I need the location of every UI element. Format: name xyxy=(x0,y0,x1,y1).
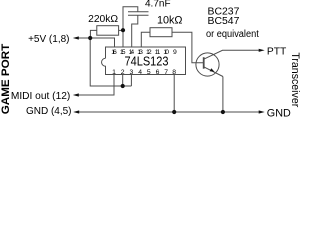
svg-text:10kΩ: 10kΩ xyxy=(157,15,182,27)
svg-text:1: 1 xyxy=(112,69,116,76)
svg-text:GND: GND xyxy=(267,108,291,118)
svg-text:220kΩ: 220kΩ xyxy=(88,14,118,25)
svg-text:5: 5 xyxy=(147,69,151,76)
svg-text:MIDI out (12): MIDI out (12) xyxy=(11,91,70,102)
svg-text:GND (4,5): GND (4,5) xyxy=(26,106,72,117)
svg-text:Transceiver: Transceiver xyxy=(289,52,300,107)
svg-text:or equivalent: or equivalent xyxy=(206,29,259,40)
svg-text:74LS123: 74LS123 xyxy=(125,53,169,68)
svg-text:6: 6 xyxy=(156,69,160,76)
svg-text:PTT: PTT xyxy=(267,46,286,57)
svg-text:GAME PORT: GAME PORT xyxy=(0,43,12,114)
svg-text:2: 2 xyxy=(121,69,125,76)
svg-text:BC547: BC547 xyxy=(208,16,240,27)
svg-text:+5V (1,8): +5V (1,8) xyxy=(28,34,69,45)
svg-text:4: 4 xyxy=(138,69,142,76)
svg-text:16: 16 xyxy=(111,49,117,56)
svg-text:7: 7 xyxy=(164,69,168,76)
svg-text:4.7nF: 4.7nF xyxy=(145,0,171,10)
svg-text:9: 9 xyxy=(173,49,177,56)
svg-text:3: 3 xyxy=(130,69,134,76)
svg-text:8: 8 xyxy=(172,69,176,76)
